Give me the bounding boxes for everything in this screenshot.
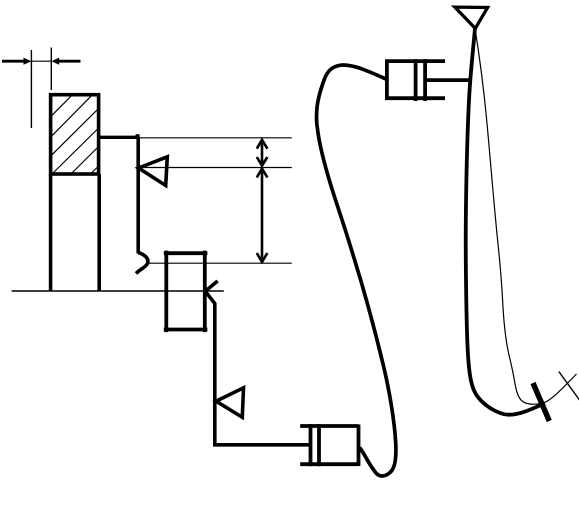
extension line right (thin vertical) (50, 48, 52, 91)
leader line (down then right to cylinder rod) (205, 291, 310, 445)
triangle symbol 2 (open, pointing left) (216, 388, 244, 418)
thick leader curve (from triangle 3 down to tick) (466, 28, 545, 414)
extension line (thin horizontal, lower) (149, 262, 292, 264)
shoulder line (thick horizontal from block) (99, 136, 139, 139)
arrow barb at rectangle 2 (205, 281, 217, 291)
hose loop (big thick curve) (317, 65, 396, 476)
triangle symbol 1 (open, pointing left) (139, 157, 168, 186)
column right wall (97, 174, 101, 291)
column left wall (49, 174, 53, 291)
vertical dimension arrows (257, 140, 268, 263)
thin leader curve (from triangle 3 down, drifting right) (475, 28, 577, 404)
cylinder top (piston symbol) (385, 59, 471, 101)
tick bar (thick diagonal) (533, 383, 549, 421)
extension line left (thin vertical) (30, 50, 32, 128)
squiggle hook (136, 253, 148, 274)
baseline (long thin horizontal) (12, 290, 224, 292)
extension line (thin horizontal, upper) (138, 137, 292, 139)
corner nub (136, 134, 140, 138)
drop line (thick vertical) (136, 137, 140, 253)
extension line (thin horizontal, middle) (138, 167, 292, 169)
rectangle 2 (with corner overshoots) (164, 251, 208, 333)
thin diagonal tick (559, 372, 579, 401)
cylinder bottom (piston symbol) (300, 424, 358, 466)
dimension line with arrows (horizontal, top-left) (2, 58, 81, 65)
hatched block (rectangle with diagonal hatching) (51, 95, 99, 174)
triangle symbol 3 (open, pointing down, top right) (455, 7, 488, 28)
